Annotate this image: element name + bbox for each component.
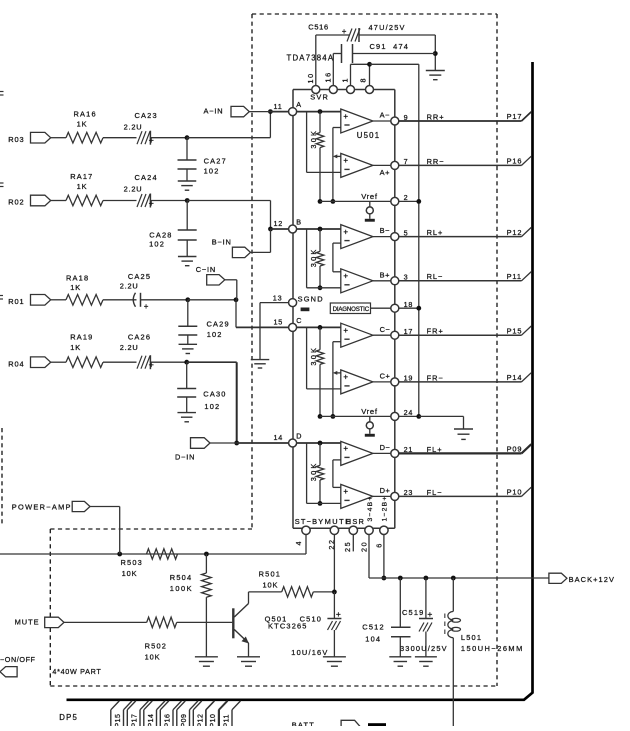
label FL- [427, 488, 443, 497]
output row FL+ wire [399, 452, 522, 454]
svg-text:102: 102 [204, 402, 220, 411]
svg-text:RA17: RA17 [70, 172, 93, 181]
output label B+ [380, 270, 390, 279]
op-amp A+ output wire [373, 164, 391, 166]
svg-text:4*40W PART: 4*40W PART [52, 667, 101, 676]
svg-text:DIAGNOSTIC: DIAGNOSTIC [333, 306, 370, 313]
connector P17 [507, 112, 532, 121]
op-amp A- (U501) [341, 109, 373, 133]
svg-text:16: 16 [323, 71, 332, 82]
svg-text:A−: A− [380, 111, 390, 120]
pin 24 number [404, 408, 414, 417]
svg-text:P15: P15 [507, 326, 523, 335]
connector C-IN [196, 265, 237, 300]
junction dot pin 2 rail [416, 199, 421, 204]
junction dot C91/C516 [433, 51, 438, 56]
svg-text:R02: R02 [8, 198, 24, 207]
resistor R501 [282, 587, 314, 597]
capacitor C512 [391, 578, 411, 657]
label SGND [298, 294, 324, 303]
svg-text:CA28: CA28 [149, 230, 172, 239]
svg-text:+: + [343, 272, 348, 281]
left edge dashed fragment [1, 428, 3, 524]
node C circle pin 15 [289, 323, 297, 331]
connector P16 [507, 156, 532, 165]
pin 1 circle [347, 86, 355, 94]
op-amp C- (U501) [341, 323, 373, 347]
shared dashed boundary right [496, 14, 498, 686]
label 1-2B+ (pin 6) [382, 495, 389, 521]
pin 1 number [341, 77, 350, 83]
resistor R503 [147, 549, 178, 559]
svg-text:+: + [343, 112, 348, 121]
label CA25 [128, 272, 151, 281]
junction dot pin 24 rail [399, 414, 421, 419]
feedback wire channel B [333, 243, 341, 272]
label FR- [427, 373, 444, 382]
label CA27 [204, 157, 227, 166]
pin 16 circle [329, 86, 337, 94]
pin 22 circle (bottom) [330, 526, 338, 534]
pin 1 wire [351, 64, 370, 85]
label CA26 [128, 332, 151, 341]
svg-text:CA24: CA24 [135, 173, 158, 182]
output row FL- wire [399, 495, 522, 497]
label C512 104 [365, 635, 381, 644]
svg-text:P10: P10 [210, 714, 217, 726]
left edge tick 1 [0, 92, 4, 96]
svg-text:CA25: CA25 [128, 272, 151, 281]
svg-text:B−IN: B−IN [212, 237, 232, 246]
op-amp D+ output wire [373, 495, 391, 497]
label CA30 102 [204, 402, 220, 411]
svg-text:D−: D− [380, 443, 391, 452]
node C input wire [297, 326, 341, 328]
svg-text:2.2U: 2.2U [120, 282, 139, 291]
svg-text:13: 13 [273, 293, 283, 302]
svg-text:100K: 100K [170, 584, 193, 593]
label 47U/25V [369, 23, 406, 32]
node letter B [296, 217, 301, 226]
label RA19 [70, 332, 93, 341]
svg-text:11: 11 [274, 102, 283, 111]
svg-text:1K: 1K [70, 343, 81, 352]
op-amp D+ (U501) [341, 484, 373, 508]
svg-text:MUTE: MUTE [15, 618, 40, 627]
op-amp D- (U501) [341, 441, 373, 465]
svg-text:14: 14 [274, 433, 284, 442]
pin 21 number [404, 445, 414, 454]
junction dot L501 [451, 576, 456, 581]
output row FR+ wire [399, 334, 522, 336]
svg-text:C−IN: C−IN [196, 265, 216, 274]
ground (R504) [195, 657, 218, 666]
pin 3 circle [391, 277, 399, 285]
output row RR+ wire [399, 120, 522, 122]
label RL+ [427, 228, 444, 237]
junction dot pin 18 rail [399, 306, 421, 311]
svg-text:P09: P09 [507, 445, 523, 454]
svg-text:+: + [144, 302, 149, 311]
ground (top right) [426, 71, 445, 80]
svg-text:D: D [296, 431, 301, 440]
svg-text:1K: 1K [70, 283, 81, 292]
svg-text:1K: 1K [77, 120, 88, 129]
svg-text:P12: P12 [198, 714, 205, 726]
wire row A to node A [187, 109, 289, 138]
pin 19 number [404, 374, 414, 383]
label C516 [308, 23, 328, 32]
wire pin8 to internal rail [370, 63, 419, 65]
svg-text:R04: R04 [8, 359, 24, 368]
label CA25 2.2U [120, 282, 139, 291]
label ST-BY [295, 517, 325, 526]
wire pin 22 down [332, 535, 337, 619]
svg-text:2.2U: 2.2U [120, 343, 139, 352]
label Vref [361, 192, 378, 201]
resistor 30K channel C [316, 325, 324, 419]
pin 19 circle [391, 378, 399, 386]
SGND tab [301, 308, 310, 312]
label CA23 [135, 111, 158, 120]
svg-text:P17: P17 [132, 714, 139, 726]
svg-text:P15: P15 [115, 714, 122, 726]
pin 16 wire [333, 54, 341, 86]
capacitor C510 [327, 609, 341, 657]
label 150UH-26MM [461, 644, 524, 653]
resistor 30K channel A [316, 109, 324, 204]
connector P15 (bottom) [111, 701, 132, 728]
pin 5 number [404, 228, 409, 237]
svg-text:RL+: RL+ [427, 228, 444, 237]
label CA29 [207, 319, 230, 328]
label DP5 [59, 713, 78, 722]
pin 4 number [294, 540, 303, 546]
svg-text:10U/16V: 10U/16V [291, 648, 328, 657]
svg-text:+: + [149, 360, 154, 370]
capacitor CA30 to ground [177, 362, 196, 422]
output row RL- wire [399, 280, 522, 282]
svg-text:CA30: CA30 [203, 390, 226, 399]
connector BACK+12V [549, 573, 615, 584]
output label D- [380, 443, 391, 452]
svg-text:30K: 30K [309, 346, 318, 366]
svg-text:SGND: SGND [298, 294, 324, 303]
junction node row D [184, 360, 189, 365]
label TDA7384A [287, 54, 335, 63]
svg-text:10: 10 [306, 72, 315, 83]
connector B-IN [212, 229, 271, 258]
SGND wire to ground [260, 303, 289, 360]
label RA19 1K [70, 343, 81, 352]
connector P10 (bottom) [206, 701, 227, 728]
svg-text:CA27: CA27 [204, 157, 227, 166]
svg-text:C−: C− [380, 325, 391, 334]
op-amp A+ (U501) [341, 153, 373, 177]
junction node row C [185, 297, 190, 302]
svg-text:P16: P16 [165, 714, 172, 726]
svg-text:30K: 30K [309, 129, 318, 149]
svg-text:SVR: SVR [310, 93, 329, 102]
svg-text:20: 20 [359, 541, 368, 552]
svg-text:1: 1 [341, 77, 350, 83]
svg-text:102: 102 [204, 167, 220, 176]
svg-text:R503: R503 [121, 558, 143, 567]
svg-text:8: 8 [359, 77, 368, 83]
label RA17 1K [77, 182, 88, 191]
pin 25 stub wire [352, 535, 354, 552]
pin 24 circle [391, 412, 399, 420]
capacitor C519 [419, 578, 433, 657]
svg-text:R01: R01 [8, 297, 24, 306]
connector POWER-AMP [12, 501, 120, 554]
capacitor CA28 to ground [178, 201, 197, 266]
wire pin 20 down [368, 535, 370, 579]
connector P14 [507, 373, 532, 382]
junction dot pin8 [367, 62, 372, 67]
svg-text:HSR: HSR [346, 517, 365, 526]
label C510 [300, 615, 322, 624]
IC TDA7384A dashed boundary left [251, 14, 253, 529]
node A input wire [297, 111, 341, 113]
pin 20 number [359, 541, 368, 552]
label CA26 2.2U [120, 343, 139, 352]
node B input wire [297, 228, 341, 230]
svg-text:+: + [336, 609, 341, 619]
svg-text:CA26: CA26 [128, 332, 151, 341]
connector P11 [507, 272, 532, 281]
label R504 [170, 573, 192, 582]
pin 17 circle [391, 331, 399, 339]
resistor 30K channel B [316, 227, 324, 291]
wire pin 24 to ground [419, 416, 464, 429]
label C91 474 [370, 42, 410, 51]
pin 8 wire [369, 64, 371, 85]
label FR+ [427, 327, 444, 336]
node letter C [296, 316, 301, 325]
svg-text:+: + [343, 156, 348, 165]
label R503 10K [122, 569, 138, 578]
svg-text:Vref: Vref [361, 407, 378, 416]
capacitor CA29 to ground [178, 300, 197, 354]
ground (SGND) [251, 360, 270, 368]
resistor R502 [147, 617, 177, 627]
svg-text:102: 102 [149, 239, 165, 248]
svg-text:B−: B− [380, 226, 390, 235]
pin 2 circle [391, 197, 399, 205]
op-amp C+ output wire [373, 381, 391, 383]
connector MUTE [15, 617, 147, 627]
ground (C510) [323, 657, 346, 666]
connector P16 (bottom) [160, 701, 181, 728]
svg-text:L501: L501 [461, 633, 482, 642]
label C512 [362, 623, 384, 632]
pin 10 circle [312, 86, 320, 94]
svg-text:DP5: DP5 [59, 713, 78, 722]
pin 7 circle [391, 161, 399, 169]
svg-text:P11: P11 [507, 272, 522, 281]
svg-text:B+: B+ [380, 270, 390, 279]
junction dot POWER-AMP [117, 552, 122, 557]
svg-text:FL−: FL− [427, 488, 443, 497]
connector -ON/OFF [0, 655, 36, 677]
pin 6 number [375, 542, 384, 548]
4x40W PART dashed box bottom [50, 685, 497, 687]
svg-text:BACK+12V: BACK+12V [569, 575, 615, 584]
label C519 [402, 608, 424, 617]
svg-text:150UH−26MM: 150UH−26MM [461, 644, 524, 653]
label 30K channel D [309, 461, 318, 481]
svg-text:25: 25 [343, 541, 352, 552]
ST-BY row wire [0, 553, 306, 555]
svg-text:1K: 1K [77, 182, 88, 191]
label RA17 [70, 172, 93, 181]
pin 17 number [404, 327, 414, 336]
svg-text:R504: R504 [170, 573, 192, 582]
svg-text:12: 12 [274, 219, 284, 228]
ground (C519) [415, 657, 437, 666]
svg-text:U501: U501 [357, 131, 380, 140]
feedback wire channel D [333, 460, 341, 488]
connector P14 (bottom) [144, 701, 165, 728]
svg-text:P17: P17 [507, 112, 523, 121]
svg-text:P16: P16 [507, 157, 523, 166]
ground (C512) [389, 657, 411, 666]
label R503 [121, 558, 143, 567]
connector R02 / resistor RA17 / capacitor CA24 [8, 194, 187, 209]
label FL+ [427, 445, 443, 454]
connector P09 [507, 444, 532, 453]
svg-text:47U/25V: 47U/25V [369, 23, 406, 32]
svg-text:P14: P14 [148, 714, 155, 726]
svg-text:B: B [296, 217, 301, 226]
DIAGNOSTIC box [330, 303, 370, 314]
connector P17 (bottom) [127, 701, 148, 728]
IC U501 internal outline [293, 90, 395, 529]
label RL- [427, 272, 444, 281]
svg-text:10K: 10K [145, 652, 161, 661]
label 30K channel C [309, 346, 318, 366]
svg-text:6: 6 [375, 542, 384, 548]
svg-text:C510: C510 [300, 615, 322, 624]
wire row D to node D [187, 362, 289, 445]
connector P12 [507, 227, 532, 236]
capacitor C516 [342, 27, 360, 42]
svg-text:A: A [296, 100, 301, 109]
svg-text:RA18: RA18 [66, 273, 89, 282]
connector P10 [507, 487, 532, 496]
svg-text:FR+: FR+ [427, 327, 444, 336]
pin 25 number [343, 541, 352, 552]
svg-text:1−2B+: 1−2B+ [382, 495, 389, 521]
label RA16 [74, 110, 97, 119]
pin 23 circle [391, 492, 399, 500]
connector A-IN [204, 106, 271, 116]
wire pin 4 down [305, 535, 307, 555]
svg-text:+: + [342, 27, 347, 36]
pin 5 circle [391, 233, 399, 241]
node D circle pin 14 [289, 439, 297, 447]
svg-text:FL+: FL+ [427, 445, 443, 454]
IC TDA7384A dashed boundary top [252, 13, 497, 15]
svg-text:10K: 10K [263, 581, 279, 590]
4x40W PART dashed box top [50, 528, 252, 530]
BACK+12V rail wire [369, 577, 549, 579]
svg-text:10K: 10K [122, 569, 138, 578]
label R501 [259, 569, 281, 578]
pin 22 number [327, 538, 336, 549]
svg-text:4: 4 [294, 540, 303, 546]
svg-text:15: 15 [274, 318, 284, 327]
SGND pin 13 circle [289, 299, 297, 307]
Vref symbol [365, 201, 375, 221]
svg-text:BATT: BATT [292, 721, 315, 727]
svg-text:3−4B+: 3−4B+ [367, 495, 374, 521]
pin 8 number [359, 77, 368, 83]
svg-text:+: + [427, 609, 432, 619]
label RA18 1K [70, 283, 81, 292]
wire node A to op A+ inverting input [307, 112, 341, 173]
svg-text:A+: A+ [380, 168, 390, 177]
output label B- [380, 226, 390, 235]
wire DIAGNOSTIC to pin 18 [371, 307, 391, 309]
label U501 [357, 131, 380, 140]
pin 11 number [274, 102, 283, 111]
svg-text:+: + [343, 227, 348, 236]
output row FR- wire [399, 381, 522, 383]
pin 13 number [273, 293, 283, 302]
label CA30 [203, 390, 226, 399]
svg-text:C519: C519 [402, 608, 424, 617]
label L501 [461, 633, 482, 642]
Q501 collector wire [249, 592, 282, 604]
pin 15 number [274, 318, 284, 327]
wire pin 2 to rail [399, 200, 419, 202]
svg-text:P12: P12 [507, 228, 523, 237]
junction dot R504 [204, 552, 209, 557]
label R501 10K [263, 581, 279, 590]
BATT bus stub [368, 723, 386, 726]
connector D-IN [175, 438, 237, 462]
label CA23 2.2U [124, 122, 143, 131]
output label C+ [380, 372, 391, 381]
svg-text:RR+: RR+ [427, 112, 445, 121]
node letter A [296, 100, 301, 109]
label 10U/16V [291, 648, 328, 657]
svg-text:+: + [343, 487, 348, 496]
output label D+ [380, 486, 391, 495]
label MUTE [325, 517, 352, 526]
svg-text:2.2U: 2.2U [124, 122, 143, 131]
label CA28 102 [149, 239, 165, 248]
node B circle pin 12 [289, 225, 297, 233]
connector P09 (bottom) [177, 701, 198, 728]
label 3-4B+ (pin 20) [367, 495, 374, 521]
label BATT [292, 721, 315, 730]
bus line (board edge) [67, 62, 533, 700]
svg-text:RL−: RL− [427, 272, 444, 281]
output label A+ [380, 168, 390, 177]
op-amp C+ (U501) [341, 370, 373, 394]
connector P12 (bottom) [193, 701, 214, 728]
pin 8 circle [366, 86, 374, 94]
left edge tick 3 [0, 296, 3, 300]
svg-text:P14: P14 [507, 373, 523, 382]
pin 18 circle [391, 304, 399, 312]
label R502 10K [145, 652, 161, 661]
label SVR [310, 93, 329, 102]
wire node C to op C+ inverting input [307, 327, 341, 389]
